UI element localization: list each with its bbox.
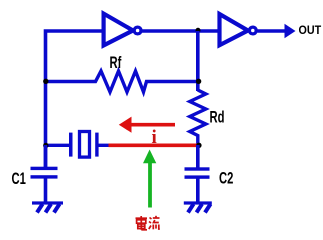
svg-text:i: i xyxy=(152,127,157,148)
svg-text:Rf: Rf xyxy=(110,53,122,72)
node: junction dot Rf right end xyxy=(196,79,201,84)
wire: vertical rail x=197.5 from top wire down to Rd xyxy=(196,31,200,91)
wire: crystal row left segment xyxy=(46,144,70,147)
crystal X1 (quartz) xyxy=(69,132,109,158)
resistor Rf (feedback) with wires xyxy=(47,71,196,92)
node: junction dot left rail / Rf xyxy=(43,79,48,84)
glyph 流 xyxy=(149,216,160,230)
red current arrow (pointing left) xyxy=(119,117,175,133)
op-amp U1 (inverter, top-left) xyxy=(104,14,141,46)
wire: top-left corner, left vertical rail x=45.5 and top horizontal to U1 input xyxy=(46,31,104,168)
node: junction dot left rail / crystal row xyxy=(43,143,48,148)
svg-text:C2: C2 xyxy=(219,168,233,187)
green current arrow (pointing up) xyxy=(143,150,156,208)
svg-text:OUT: OUT xyxy=(299,24,322,37)
wire: U1 output to U2 input xyxy=(142,29,219,33)
wire: U2 output to OUT arrow xyxy=(258,24,296,38)
ground (C2) xyxy=(184,201,212,212)
wire: red segment crystal to C2 node xyxy=(109,144,200,148)
label 電流 (current) drawn as vector glyphs xyxy=(136,216,160,230)
ground (C1) xyxy=(32,201,63,212)
op-amp U2 (inverter, top-right) xyxy=(220,14,257,45)
node: junction dot top of Rd rail xyxy=(196,28,201,33)
capacitor C1 xyxy=(31,145,58,202)
capacitor C2 xyxy=(185,145,210,202)
resistor Rd (vertical) xyxy=(190,90,206,146)
svg-text:C1: C1 xyxy=(12,169,26,188)
node: junction dot red wire / Rd bottom xyxy=(196,143,201,148)
svg-text:Rd: Rd xyxy=(210,107,225,126)
glyph 電 xyxy=(136,216,148,230)
